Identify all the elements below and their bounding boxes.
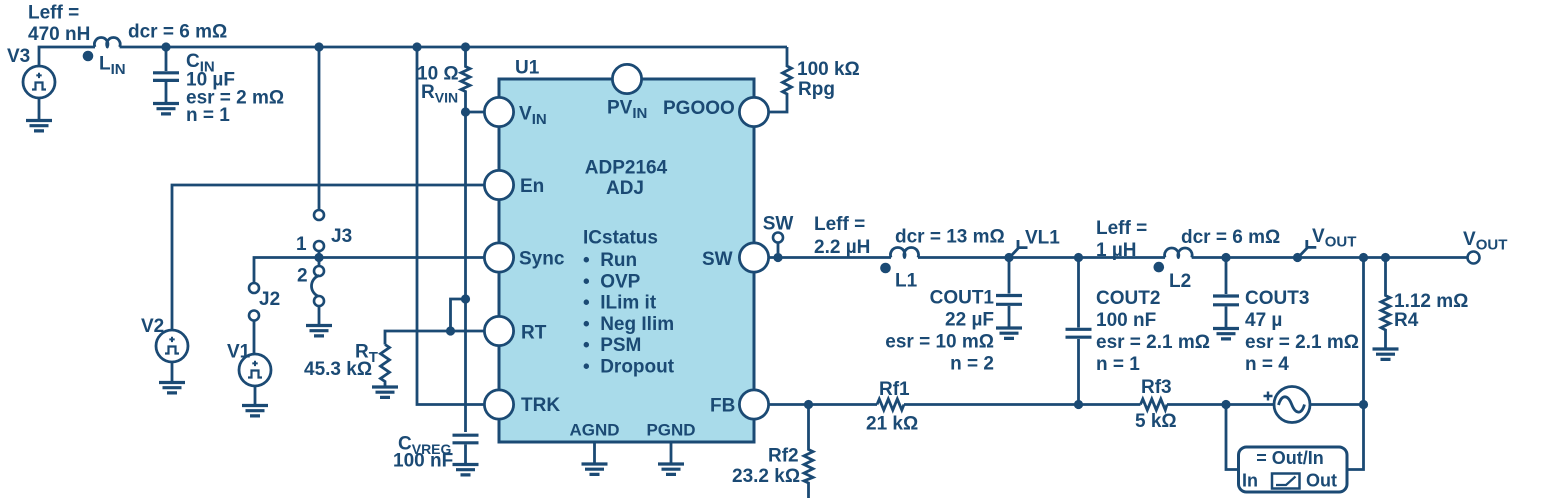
node rail junction RVIN	[461, 42, 470, 51]
inductor L2	[1096, 218, 1280, 292]
svg-text:PGOOO: PGOOO	[663, 98, 735, 119]
ground below R4	[1373, 349, 1399, 359]
node J3 sync junction	[314, 253, 323, 262]
svg-text:• PSM: • PSM	[583, 335, 641, 356]
node VL1 probe	[1004, 228, 1060, 263]
voltage source V1	[227, 342, 271, 387]
resistor Rf3	[1135, 377, 1177, 432]
svg-text:ICstatus: ICstatus	[583, 228, 658, 249]
svg-text:2.2 µH: 2.2 µH	[814, 237, 870, 258]
ground below COUT1	[996, 328, 1022, 338]
node Rf2 junction	[804, 400, 813, 409]
svg-text:• OVP: • OVP	[583, 271, 641, 292]
ground below J3	[306, 326, 332, 336]
svg-text:TRK: TRK	[521, 395, 560, 416]
svg-text:J2: J2	[259, 289, 280, 310]
svg-text:100 kΩ: 100 kΩ	[797, 59, 860, 80]
svg-text:En: En	[520, 176, 544, 197]
svg-text:100 nF: 100 nF	[1096, 310, 1156, 331]
capacitor C_VREG	[393, 434, 479, 472]
ground below V2	[159, 383, 185, 393]
wire RT stub step	[451, 299, 466, 331]
svg-text:FB: FB	[710, 396, 735, 417]
svg-text:COUT2: COUT2	[1096, 288, 1160, 309]
svg-text:Rf3: Rf3	[1141, 377, 1172, 398]
wire VIN stub	[466, 111, 485, 114]
resistor R_T	[304, 342, 390, 386]
wire J2 to V1	[253, 321, 256, 355]
node VIN junction	[461, 107, 470, 116]
svg-text:n = 2: n = 2	[950, 354, 994, 375]
svg-text:Leff =: Leff =	[814, 214, 865, 235]
ground below V1	[242, 406, 268, 416]
svg-text:Leff =: Leff =	[28, 3, 79, 24]
capacitor C_IN	[153, 47, 284, 126]
inductor L1	[814, 214, 1005, 292]
voltage source V2	[141, 316, 188, 362]
wire En line	[172, 185, 484, 330]
wire top rail	[120, 46, 787, 49]
jumper J3	[296, 210, 352, 324]
node box-left junction	[1221, 400, 1230, 409]
capacitor COUT2	[1066, 258, 1211, 405]
ground below V3	[26, 121, 52, 131]
svg-text:VL1: VL1	[1025, 228, 1060, 249]
svg-text:Sync: Sync	[519, 249, 565, 270]
svg-text:RVIN: RVIN	[421, 82, 458, 106]
svg-text:L2: L2	[1169, 271, 1191, 292]
capacitor COUT3	[1213, 258, 1359, 376]
svg-text:U1: U1	[515, 58, 540, 79]
node FB right junction	[1359, 400, 1368, 409]
svg-text:In: In	[1242, 471, 1258, 491]
wire J3 drop	[318, 47, 321, 210]
svg-text:ADP2164: ADP2164	[585, 158, 668, 179]
svg-text:• ILim it: • ILim it	[583, 293, 657, 314]
svg-text:100 nF: 100 nF	[393, 451, 453, 472]
ground below C_VREG	[453, 465, 479, 475]
wire V2 to ground	[171, 362, 174, 381]
svg-text:Rpg: Rpg	[798, 79, 835, 100]
svg-text:R4: R4	[1394, 310, 1419, 331]
svg-text:Rf2: Rf2	[768, 446, 799, 467]
svg-text:22 µF: 22 µF	[945, 310, 994, 331]
svg-text:= Out/In: = Out/In	[1256, 448, 1324, 468]
svg-text:VOUT: VOUT	[1312, 226, 1356, 251]
svg-text:• Run: • Run	[583, 250, 637, 271]
svg-text:V2: V2	[141, 316, 164, 337]
svg-text:esr = 2.1 mΩ: esr = 2.1 mΩ	[1245, 332, 1359, 353]
svg-text:47 µ: 47 µ	[1245, 310, 1282, 331]
resistor Rf2	[732, 405, 813, 498]
ground below COUT3	[1213, 329, 1239, 339]
svg-text:45.3 kΩ: 45.3 kΩ	[304, 359, 372, 380]
wire Sync line	[254, 258, 484, 284]
svg-text:dcr = 13 mΩ: dcr = 13 mΩ	[895, 227, 1005, 248]
ground below R_T	[372, 387, 398, 397]
op-amp U1 ADP2164	[484, 58, 768, 443]
node L2 junction	[1074, 253, 1083, 262]
svg-text:SW: SW	[763, 214, 794, 235]
svg-text:Leff =: Leff =	[1096, 218, 1147, 239]
svg-text:COUT3: COUT3	[1245, 288, 1309, 309]
ac source	[1264, 387, 1311, 423]
svg-text:COUT1: COUT1	[930, 288, 995, 309]
wire V3 top to rail	[39, 47, 95, 119]
svg-text:• Dropout: • Dropout	[583, 357, 675, 378]
node COUT2 bottom junction	[1074, 400, 1083, 409]
node VOUT terminal	[1463, 229, 1507, 264]
svg-text:L1: L1	[895, 271, 918, 292]
svg-text:5 kΩ: 5 kΩ	[1135, 411, 1177, 432]
svg-text:Out: Out	[1306, 471, 1337, 491]
node RT-stub lower junction	[446, 326, 455, 335]
resistor Rf1	[866, 379, 918, 435]
wire PGND stem	[670, 442, 673, 463]
voltage source V3	[7, 46, 55, 98]
node RT-stub upper junction	[461, 294, 470, 303]
svg-text:470 nH: 470 nH	[28, 24, 90, 45]
svg-text:ADJ: ADJ	[606, 178, 644, 199]
svg-text:1 µH: 1 µH	[1096, 240, 1137, 261]
svg-text:• Neg Ilim: • Neg Ilim	[583, 314, 674, 335]
svg-text:dcr = 6 mΩ: dcr = 6 mΩ	[128, 22, 227, 43]
node J3 rail junction	[314, 42, 323, 51]
node R4 junction	[1381, 253, 1390, 262]
node VOUT probe	[1293, 226, 1356, 262]
wire to Out/In box left	[1226, 405, 1239, 470]
svg-text:23.2 kΩ: 23.2 kΩ	[732, 466, 800, 487]
node right-branch junction	[1359, 253, 1368, 262]
ground AGND	[582, 464, 608, 474]
ground PGND	[658, 464, 684, 474]
svg-text:V1: V1	[227, 342, 251, 363]
svg-text:AGND: AGND	[569, 421, 619, 440]
svg-text:1: 1	[296, 234, 307, 255]
wire V1 to ground	[254, 386, 257, 404]
node SW test point	[763, 214, 794, 263]
resistor R4	[1381, 258, 1468, 348]
node C_IN junction	[161, 42, 170, 51]
svg-text:dcr = 6 mΩ: dcr = 6 mΩ	[1181, 227, 1280, 248]
inductor L_IN	[28, 3, 227, 79]
transfer block Out/In	[1239, 447, 1348, 492]
svg-text:PGND: PGND	[646, 421, 695, 440]
svg-text:V3: V3	[7, 46, 30, 67]
svg-text:LIN: LIN	[99, 54, 126, 79]
wire right vertical branch	[1347, 258, 1364, 470]
resistor Rpg	[769, 47, 860, 112]
wire CVREG vertical	[464, 112, 467, 432]
capacitor COUT1	[885, 258, 1022, 375]
node COUT3 junction	[1221, 253, 1230, 262]
svg-text:Rf1: Rf1	[879, 379, 910, 400]
ground below C_IN	[153, 104, 179, 114]
svg-text:2: 2	[297, 266, 308, 287]
node rail junction x417	[412, 42, 421, 51]
wire AGND stem	[593, 442, 596, 463]
resistor R_VIN	[417, 47, 470, 110]
svg-text:SW: SW	[702, 249, 733, 270]
svg-text:1.12 mΩ: 1.12 mΩ	[1394, 291, 1468, 312]
svg-text:J3: J3	[331, 226, 352, 247]
svg-text:21 kΩ: 21 kΩ	[866, 414, 918, 435]
svg-text:VOUT: VOUT	[1463, 229, 1507, 254]
wire SW rail	[769, 256, 1468, 259]
svg-text:n = 1: n = 1	[1096, 354, 1140, 375]
jumper J2	[249, 283, 280, 321]
svg-text:n = 1: n = 1	[186, 105, 230, 126]
wire vertical rail-to-TRK	[417, 47, 484, 405]
svg-text:n = 4: n = 4	[1245, 354, 1289, 375]
wire RT line	[385, 331, 484, 345]
svg-text:esr = 10 mΩ: esr = 10 mΩ	[885, 332, 994, 353]
svg-text:esr = 2.1 mΩ: esr = 2.1 mΩ	[1096, 332, 1210, 353]
wire FB rail	[769, 403, 1364, 406]
svg-text:RT: RT	[521, 323, 547, 344]
